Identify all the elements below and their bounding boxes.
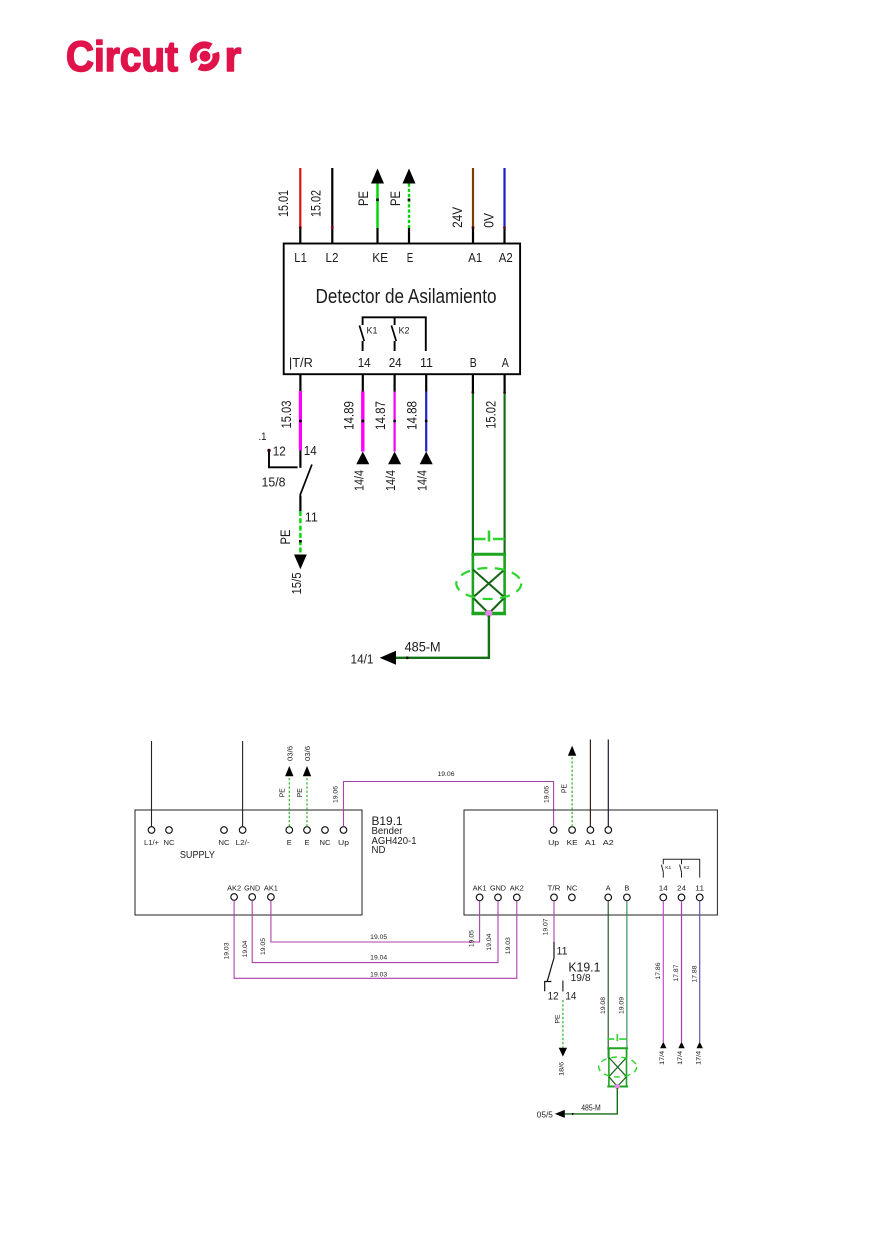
terminal NC (3) [320, 827, 331, 847]
terminal E (1) [286, 827, 293, 847]
wire 485-M (dark green down and left) [396, 616, 489, 658]
svg-text:14/4: 14/4 [352, 470, 366, 491]
svg-text:12: 12 [273, 445, 286, 459]
wire L1/+ up [151, 741, 153, 827]
arrow up 17/4 (c) [697, 1042, 703, 1048]
wire PE KE (green dashed up arrow) [561, 746, 576, 827]
svg-text:A2: A2 [603, 840, 614, 847]
svg-text:GND: GND [244, 886, 260, 893]
svg-text:15/8: 15/8 [262, 476, 286, 490]
svg-text:K1: K1 [665, 865, 672, 870]
upper schematic [259, 168, 522, 666]
svg-text:14.88: 14.88 [405, 401, 420, 430]
svg-text:L2: L2 [326, 251, 339, 265]
svg-text:14: 14 [358, 356, 371, 370]
wire 19.07 from T/R (violet) [542, 901, 554, 942]
svg-text:19.09: 19.09 [619, 997, 626, 1014]
svg-text:05/5: 05/5 [537, 1109, 553, 1119]
svg-text:A: A [606, 886, 611, 893]
contact K1 small [661, 865, 663, 873]
svg-text:11: 11 [695, 886, 704, 893]
svg-text:24: 24 [389, 356, 402, 370]
svg-text:17/4: 17/4 [695, 1050, 702, 1064]
wire 0V (blue, to A2) [481, 168, 506, 244]
svg-text:A2: A2 [499, 251, 513, 265]
svg-text:19.03: 19.03 [505, 937, 512, 954]
svg-text:17.88: 17.88 [691, 965, 698, 982]
wire 24V (brown, to A1) [449, 168, 475, 244]
svg-text:11: 11 [557, 946, 568, 958]
svg-text:L1: L1 [294, 251, 307, 265]
svg-text:24V: 24V [449, 206, 465, 228]
svg-text:PE: PE [356, 191, 371, 206]
svg-text:GND: GND [490, 886, 506, 893]
wire 14.89 (magenta, from 14) [341, 374, 364, 451]
svg-text:19.06: 19.06 [438, 771, 455, 778]
terminal 14 right [659, 886, 668, 901]
wire PE to KE (solid green) with up arrow [356, 169, 384, 244]
terminal 11 right [695, 886, 704, 901]
svg-text:11: 11 [420, 356, 433, 370]
svg-text:19.04: 19.04 [370, 954, 387, 961]
svg-text:14/1: 14/1 [351, 652, 374, 666]
svg-text:NC: NC [164, 840, 175, 847]
svg-text:14.89: 14.89 [341, 401, 356, 430]
svg-text:Up: Up [338, 840, 349, 847]
terminal 24 right [677, 886, 686, 901]
twisted pair crossing (lower) [609, 1058, 627, 1087]
svg-text:NC: NC [219, 840, 230, 847]
svg-text:24: 24 [677, 886, 686, 893]
svg-text:15.01: 15.01 [276, 190, 291, 217]
wire 15.03 (magenta, from T/R) [279, 374, 302, 468]
terminal A2 [603, 827, 614, 847]
svg-text:B: B [470, 356, 477, 370]
wire 14.87 (magenta, from 24) [373, 374, 396, 451]
svg-text:ND: ND [372, 845, 386, 856]
svg-text:15/5: 15/5 [290, 572, 304, 594]
cable shield symbol (lower) [607, 1034, 628, 1087]
svg-text:A: A [502, 356, 509, 370]
terminal T/R [548, 886, 561, 901]
svg-text:19/8: 19/8 [571, 972, 591, 984]
svg-text:17.87: 17.87 [673, 964, 680, 981]
svg-text:Detector de Asilamiento: Detector de Asilamiento [316, 286, 497, 308]
svg-text:PE: PE [388, 191, 403, 206]
wire 19.04 GND-GND (violet) [242, 901, 498, 963]
svg-text:14.87: 14.87 [373, 401, 388, 430]
svg-text:0V: 0V [481, 212, 497, 228]
contact bar inside box [363, 317, 426, 351]
wire 19.05 AK1-AK1 (violet) [260, 901, 480, 956]
cable node dot (lower, pink) [615, 1084, 620, 1089]
svg-text:r: r [225, 33, 242, 81]
wire B (dark green) [472, 374, 475, 570]
svg-text:|T/R: |T/R [289, 356, 313, 370]
wire PE to E (dashed green) with up arrow [388, 169, 416, 244]
arrow up 14/4 (c) [420, 452, 433, 465]
twisted pair crossing [473, 570, 505, 614]
arrow down 18/6 [559, 1048, 567, 1057]
svg-text:Circut: Circut [66, 33, 178, 81]
cable bottom bar [471, 612, 506, 615]
svg-text:B: B [624, 886, 629, 893]
terminal AK2 left [227, 886, 241, 901]
arrow left to 14/1 [380, 651, 396, 665]
contact K2 [391, 326, 409, 352]
svg-text:NC: NC [566, 886, 577, 893]
svg-text:11: 11 [305, 511, 318, 525]
shield ellipse (lower) [599, 1057, 637, 1077]
terminal NC (1) [164, 827, 175, 847]
svg-text:15.02: 15.02 [309, 190, 324, 217]
lower schematic [135, 740, 717, 1120]
wire 15.02 (black, to L2) [309, 168, 334, 244]
wire 15.01 (red, to L1) [276, 168, 301, 244]
arrow up 14/4 (a) [356, 452, 369, 465]
wire PE (green dashed down from contact) [278, 495, 318, 554]
svg-text:A1: A1 [585, 840, 596, 847]
cable shield symbol (upper) [471, 531, 506, 614]
contact K2 small [680, 865, 682, 873]
terminal L2/- [236, 827, 251, 847]
svg-text:19.05: 19.05 [469, 930, 476, 947]
wire PE E1 (green dashed) [280, 746, 295, 827]
svg-text:17/4: 17/4 [677, 1050, 684, 1064]
svg-text:14: 14 [659, 886, 668, 893]
svg-text:K1: K1 [367, 326, 378, 336]
wire 19.09 from B (dark green) [619, 901, 627, 1058]
svg-text:K2: K2 [399, 326, 410, 336]
svg-text:AK2: AK2 [227, 886, 241, 893]
svg-text:19.06: 19.06 [332, 786, 339, 803]
svg-text:03/6: 03/6 [288, 746, 295, 761]
svg-text:14: 14 [565, 991, 576, 1003]
svg-text:19.06: 19.06 [544, 786, 551, 803]
svg-text:19.03: 19.03 [223, 942, 230, 959]
contact group inside right block [661, 859, 699, 877]
svg-text:.1: .1 [259, 431, 267, 443]
terminal GND right [490, 886, 506, 901]
terminal NC right [566, 886, 577, 901]
wire 19.06 (violet, Up to Up) [332, 771, 553, 827]
wire 17.88 from 11 (slate blue) [691, 901, 699, 1042]
svg-text:18/6: 18/6 [558, 1061, 565, 1075]
terminal A [605, 886, 612, 901]
svg-text:19.03: 19.03 [370, 971, 387, 978]
svg-text:17.86: 17.86 [655, 962, 662, 979]
svg-text:PE: PE [297, 788, 304, 797]
terminal KE [567, 827, 578, 847]
svg-text:L2/-: L2/- [236, 840, 251, 847]
logo Circutor [66, 33, 242, 81]
arrow up 14/4 (b) [388, 452, 401, 465]
terminal NC (2) [219, 827, 230, 847]
device tag B19.1 Bender AGH420-1 ND [372, 814, 417, 856]
supply block B19.1 left [135, 810, 362, 915]
svg-text:PE: PE [561, 784, 568, 793]
terminal AK1 left [264, 886, 278, 901]
wire 17.87 from 24 (violet) [673, 901, 681, 1042]
shield ellipse (dashed) [456, 568, 521, 599]
wire A (dark green) [503, 374, 506, 570]
svg-text:L1/+: L1/+ [144, 840, 159, 847]
contact K19.1 [544, 942, 600, 1003]
svg-text:485-M: 485-M [405, 639, 441, 654]
cable node dot (pink) [485, 610, 492, 617]
contact 15/8 branch (12 terminal) [259, 431, 317, 490]
wire PE from contact 14 (green dashed) [554, 981, 563, 1048]
svg-text:19.04: 19.04 [486, 933, 493, 950]
terminal AK2 right [510, 886, 524, 901]
svg-text:AK1: AK1 [473, 886, 487, 893]
svg-text:E: E [407, 251, 414, 265]
svg-text:E: E [287, 840, 292, 847]
svg-text:19.04: 19.04 [242, 940, 249, 957]
logo stylized o [193, 45, 216, 68]
svg-text:PE: PE [278, 530, 293, 545]
svg-text:19.08: 19.08 [600, 997, 607, 1014]
svg-text:KE: KE [567, 840, 578, 847]
arrow up 17/4 (b) [678, 1042, 684, 1048]
svg-text:PE: PE [554, 1014, 561, 1024]
wire PE E2 (green dashed) [297, 746, 312, 827]
terminal GND left [244, 886, 260, 901]
terminal Up left [338, 827, 349, 847]
svg-text:KE: KE [372, 251, 388, 265]
terminal A1 [585, 827, 596, 847]
wire A1 up (dark brown) [589, 740, 591, 827]
svg-text:K2: K2 [684, 865, 691, 870]
svg-text:15.03: 15.03 [279, 401, 294, 429]
wire 17.86 from 14 (violet) [655, 901, 663, 1042]
wire 485-M lower (dark green) [565, 1088, 618, 1114]
wire A2 up (dark navy) [607, 740, 609, 827]
svg-text:SUPPLY: SUPPLY [180, 849, 215, 861]
arrow left to 05/5 [555, 1110, 565, 1118]
svg-text:Up: Up [548, 840, 559, 847]
terminal L1/+ [144, 827, 159, 847]
arrow down to 15/5 [294, 555, 307, 570]
terminal E (2) [304, 827, 311, 847]
svg-text:14/4: 14/4 [384, 470, 398, 491]
svg-text:485-M: 485-M [581, 1103, 601, 1112]
svg-text:12: 12 [548, 991, 559, 1003]
svg-text:AK1: AK1 [264, 886, 278, 893]
wire 14.88 (blue, from 11) [405, 374, 428, 451]
svg-text:E: E [305, 840, 310, 847]
svg-text:PE: PE [280, 788, 287, 797]
svg-text:14: 14 [304, 444, 317, 458]
wire 19.08 from A (dark green) [600, 901, 608, 1058]
cable bottom bar (lower) [607, 1086, 628, 1088]
bender block right [464, 810, 717, 915]
wire 19.03 AK2-AK2 (violet) [223, 901, 517, 979]
svg-text:T/R: T/R [548, 886, 561, 893]
svg-text:14/4: 14/4 [416, 470, 430, 491]
svg-text:19.07: 19.07 [542, 918, 549, 935]
terminal Up right [548, 827, 559, 847]
svg-text:19.05: 19.05 [260, 938, 267, 955]
svg-text:NC: NC [320, 840, 331, 847]
wire L2/- up [242, 741, 244, 827]
arrow up 17/4 (a) [660, 1042, 666, 1048]
svg-text:03/6: 03/6 [305, 746, 312, 761]
terminal B [624, 886, 631, 901]
svg-text:A1: A1 [468, 251, 482, 265]
contact blade K15 [300, 465, 312, 496]
contact K1 [359, 326, 377, 352]
device box Detector de Asilamiento [284, 244, 520, 375]
svg-text:AK2: AK2 [510, 886, 524, 893]
svg-text:17/4: 17/4 [659, 1050, 666, 1064]
svg-text:15.02: 15.02 [483, 401, 498, 429]
terminal AK1 right [473, 886, 487, 901]
svg-text:19.05: 19.05 [370, 934, 387, 941]
